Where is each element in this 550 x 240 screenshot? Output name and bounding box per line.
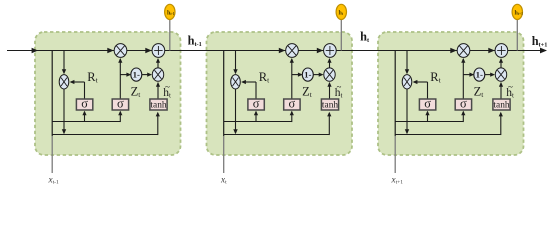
wire: drop into reset-multiply gate, cell 1 <box>63 51 65 73</box>
wire: one-minus to update-multiply gate, cell 1 <box>142 74 151 76</box>
wire: gate feed line B (to sigma boxes), cell 2 <box>224 121 292 123</box>
svg-text:xt+1: xt+1 <box>391 174 404 185</box>
wire: sigma-z output up to forget-multiply gate, cell 2 <box>291 59 293 99</box>
wire: gate feed line B (to sigma boxes), cell 3 <box>395 121 463 123</box>
sigma-r box, cell 3 <box>419 99 435 110</box>
arrowhead into forget-multiply gate on main line, cell 2 <box>279 48 285 53</box>
GRU cell 1 body <box>35 32 181 155</box>
sigma-z box, cell 2 <box>284 99 300 110</box>
wire: candidate feed line C (to tanh), cell 1 <box>52 134 158 136</box>
wire: gray stem up to output ball h, cell 2 <box>340 19 342 50</box>
wire: one-minus to update-multiply gate, cell 3 <box>485 74 494 76</box>
svg-text:ht+1: ht+1 <box>515 10 524 16</box>
wire: drop into reset-multiply gate, cell 2 <box>235 51 237 73</box>
wire: branch up into sigma-z, cell 1 <box>119 112 121 122</box>
wire: z branch to one-minus gate, cell 3 <box>463 74 473 76</box>
GRU cell 3 body <box>378 32 524 155</box>
wire: z branch to one-minus gate, cell 1 <box>120 74 130 76</box>
wire: sigma-r output to reset-multiply gate, cell 1 <box>84 82 86 99</box>
wire: sigma-r output to reset-multiply gate, cell 2 <box>255 82 257 99</box>
reset-multiply gate (x), cell 1 <box>59 75 69 89</box>
reset-multiply gate (x), cell 2 <box>231 75 241 89</box>
svg-text:ht-1: ht-1 <box>167 10 175 16</box>
svg-text:ht+1: ht+1 <box>532 34 548 49</box>
wire: update-multiply up into add gate, cell 3 <box>500 59 502 68</box>
arrowhead into forget-multiply gate on main line, cell 1 <box>107 48 113 53</box>
svg-text:σ: σ <box>81 97 88 111</box>
GRU cell 2 body <box>207 32 353 155</box>
wire: drop into reset-multiply gate, cell 3 <box>406 51 408 73</box>
wire: shared h/x vertical drop, cell 2 <box>223 51 225 137</box>
wire: one-minus to update-multiply gate, cell 2 <box>313 74 322 76</box>
wire: sigma-z output up to forget-multiply gate, cell 3 <box>462 59 464 99</box>
update-multiply gate (x), cell 2 <box>324 68 335 81</box>
arrowhead into add gate on main line, cell 1 <box>145 48 151 53</box>
wire: up into tanh, cell 3 <box>500 113 502 135</box>
arrowhead: line start into cell 1 <box>32 48 38 53</box>
wire: z branch to one-minus gate, cell 2 <box>292 74 302 76</box>
arrowhead into forget-multiply gate on main line, cell 3 <box>450 48 456 53</box>
arrowhead into add gate on main line, cell 2 <box>317 48 323 53</box>
wire: branch up into sigma-z, cell 3 <box>462 112 464 122</box>
svg-text:1-: 1- <box>304 69 311 79</box>
wire: candidate feed line C (to tanh), cell 2 <box>224 134 330 136</box>
wire: shared h/x vertical drop, cell 1 <box>51 51 53 137</box>
update-multiply gate (x), cell 1 <box>152 68 163 81</box>
wire: input stem from x (gray, exits cell bottom), cell 3 <box>394 136 396 173</box>
wire: gray stem up to output ball h, cell 1 <box>169 19 171 50</box>
arrowhead into add gate on main line, cell 3 <box>488 48 494 53</box>
wire: update-multiply up into add gate, cell 2 <box>329 59 331 68</box>
wire: branch up into sigma-r, cell 1 <box>84 112 86 122</box>
update-multiply gate (x), cell 3 <box>495 68 506 81</box>
add gate on main line (+), cell 1 <box>152 44 165 58</box>
add gate on main line (+), cell 3 <box>495 44 508 58</box>
tanh box, cell 1 <box>150 99 167 110</box>
wire: candidate feed line C (to tanh), cell 3 <box>395 134 501 136</box>
forget-multiply gate on main line (x), cell 1 <box>114 44 127 58</box>
one-minus gate (1-), cell 3 <box>474 68 485 81</box>
svg-text:1-: 1- <box>133 69 140 79</box>
wire: update-multiply up into add gate, cell 1 <box>157 59 159 68</box>
svg-text:σ: σ <box>253 97 260 111</box>
wire: gray stem up to output ball h, cell 3 <box>516 19 518 50</box>
wire: tanh output up to update-multiply gate, cell 2 <box>329 83 331 99</box>
wire: branch up into sigma-z, cell 2 <box>291 112 293 122</box>
wire: sigma-r output to reset-multiply gate, cell 3 <box>427 82 429 99</box>
svg-text:tanh: tanh <box>322 101 338 111</box>
output ball h_t-1, cell 1 <box>165 4 175 19</box>
wire: input stem from x (gray, exits cell bottom), cell 1 <box>51 136 53 173</box>
tanh box, cell 3 <box>493 99 510 110</box>
output ball h_t+1, cell 3 <box>512 4 522 19</box>
wire: tanh output up to update-multiply gate, cell 1 <box>157 83 159 99</box>
wire: up into tanh, cell 1 <box>157 113 159 135</box>
svg-text:σ: σ <box>424 97 431 111</box>
svg-text:xt-1: xt-1 <box>48 174 59 185</box>
wire: gate feed line B (to sigma boxes), cell 1 <box>52 121 120 123</box>
wire: reset gate output down to tanh feed line, cell 3 <box>406 89 408 133</box>
forget-multiply gate on main line (x), cell 3 <box>457 44 470 58</box>
wire: reset gate output down to tanh feed line, cell 2 <box>235 89 237 133</box>
wire: branch up into sigma-r, cell 3 <box>427 112 429 122</box>
wire: main horizontal state line h <box>7 50 546 52</box>
svg-text:σ: σ <box>117 97 124 111</box>
svg-text:σ: σ <box>460 97 467 111</box>
svg-text:ht: ht <box>360 30 370 45</box>
svg-text:tanh: tanh <box>150 101 166 111</box>
wire: shared h/x vertical drop, cell 3 <box>394 51 396 137</box>
one-minus gate (1-), cell 1 <box>131 68 142 81</box>
sigma-z box, cell 3 <box>455 99 471 110</box>
wire: input stem from x (gray, exits cell bottom), cell 2 <box>223 136 225 173</box>
svg-text:ht: ht <box>339 10 344 16</box>
wire: tanh output up to update-multiply gate, cell 3 <box>500 83 502 99</box>
wire: up into tanh, cell 2 <box>328 113 330 135</box>
add gate on main line (+), cell 2 <box>324 44 337 58</box>
sigma-r box, cell 1 <box>76 99 92 110</box>
svg-text:ht-1: ht-1 <box>188 34 202 49</box>
svg-text:tanh: tanh <box>493 101 509 111</box>
wire: branch up into sigma-r, cell 2 <box>255 112 257 122</box>
forget-multiply gate on main line (x), cell 2 <box>286 44 299 58</box>
wire: sigma-z output up to forget-multiply gate, cell 1 <box>119 59 121 99</box>
arrowhead: end of line (output h) <box>540 48 547 54</box>
sigma-r box, cell 2 <box>248 99 264 110</box>
one-minus gate (1-), cell 2 <box>302 68 313 81</box>
reset-multiply gate (x), cell 3 <box>402 75 412 89</box>
output ball h_t, cell 2 <box>336 4 346 19</box>
tanh box, cell 2 <box>321 99 338 110</box>
svg-text:1-: 1- <box>476 69 483 79</box>
wire: reset gate output down to tanh feed line, cell 1 <box>63 89 65 133</box>
sigma-z box, cell 1 <box>112 99 128 110</box>
svg-text:σ: σ <box>289 97 296 111</box>
svg-text:xt: xt <box>220 174 227 185</box>
